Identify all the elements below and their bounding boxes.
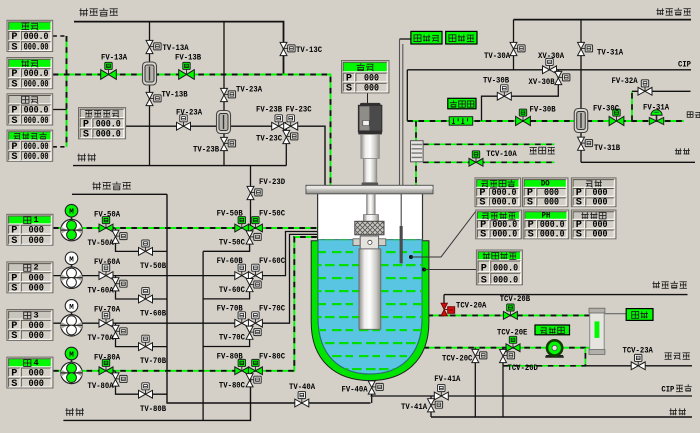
display oxygen — [7, 58, 53, 91]
svg-text:S: S — [11, 152, 17, 163]
svg-text:TV-50C: TV-50C — [219, 238, 245, 248]
valve FV-60C — [248, 264, 262, 279]
svg-text:TV-60B: TV-60B — [140, 309, 166, 319]
valve FV-40A — [368, 381, 383, 394]
svg-text:FV-60C: FV-60C — [259, 256, 285, 266]
valve TV-30B — [497, 85, 511, 100]
heat exchanger — [411, 141, 424, 162]
svg-text:000.0: 000.0 — [492, 198, 517, 209]
wire steam column TV-23 — [223, 22, 225, 166]
pump P2 — [61, 252, 83, 288]
valve TV-70A — [112, 325, 127, 338]
svg-text:000.00: 000.00 — [24, 116, 49, 127]
svg-text:TCV-20E: TCV-20E — [497, 328, 527, 338]
valve FV-23A — [177, 115, 191, 130]
svg-text:S: S — [11, 236, 17, 247]
svg-text:FV-41A: FV-41A — [434, 374, 461, 384]
valve FV-60B — [235, 264, 249, 279]
valve TV-13A — [146, 40, 161, 53]
wire TV-80A drain — [116, 371, 168, 394]
valve TV-23A — [221, 88, 236, 101]
svg-text:S: S — [480, 230, 486, 241]
wire main gas line — [53, 75, 331, 186]
svg-text:2: 2 — [33, 263, 38, 273]
svg-text:000.00: 000.00 — [24, 42, 49, 53]
display pump3 — [7, 310, 53, 343]
pump P1 — [61, 204, 83, 240]
wire top header — [74, 22, 284, 75]
svg-text:PH: PH — [542, 211, 551, 221]
svg-text:XV-30A: XV-30A — [538, 51, 565, 61]
svg-text:FV-23C: FV-23C — [286, 105, 312, 115]
wire CIP return line — [371, 395, 693, 397]
svg-text:TV-50A: TV-50A — [88, 238, 115, 248]
valve FV-23B — [272, 115, 286, 130]
label soft water — [665, 353, 690, 360]
wire glass bottom line — [503, 348, 585, 366]
leader temperature — [409, 211, 476, 259]
svg-text:TV-23C: TV-23C — [256, 134, 282, 144]
valve TCV-10A — [469, 151, 483, 166]
wire pump4 line — [53, 237, 317, 371]
display PH — [523, 210, 569, 241]
circulation pump — [545, 340, 564, 358]
valve FV-80A — [99, 359, 113, 374]
label filtered steam 1 — [79, 8, 118, 16]
valve TV-23C — [283, 130, 298, 143]
wire harvest stem — [371, 379, 373, 403]
valve TV-80B — [139, 383, 153, 398]
valve XV-30A — [543, 58, 557, 73]
svg-text:FV-23D: FV-23D — [259, 177, 285, 187]
svg-text:TV-13A: TV-13A — [163, 43, 190, 53]
agitator coupling — [355, 221, 384, 235]
svg-text:TV-80C: TV-80C — [219, 380, 245, 390]
wire FV-32A bypass — [632, 90, 691, 92]
svg-text:TV-41A: TV-41A — [401, 402, 428, 412]
wire drain bottom-left — [63, 371, 250, 421]
svg-text:S: S — [527, 198, 533, 209]
wire steam column TV-13 — [149, 22, 151, 166]
display pump2 — [7, 262, 53, 295]
valve TV-13B — [146, 92, 161, 105]
svg-text:TCV-20C: TCV-20C — [442, 354, 472, 364]
agitator cylinder — [359, 249, 381, 329]
wire TV-70C drain — [203, 323, 250, 346]
svg-text:TV-30A: TV-30A — [484, 51, 511, 61]
svg-text:XV-30B: XV-30B — [529, 77, 555, 87]
wire nitrogen connector — [53, 109, 67, 111]
valve TV-50A — [112, 230, 127, 243]
svg-text:TV-23B: TV-23B — [193, 145, 219, 155]
valve TCV-23A — [631, 354, 645, 369]
svg-text:FV-70B: FV-70B — [217, 304, 243, 314]
svg-text:1: 1 — [33, 215, 38, 225]
svg-text:FV-80B: FV-80B — [217, 351, 243, 361]
svg-text:000: 000 — [592, 230, 607, 241]
svg-text:FV-13A: FV-13A — [101, 53, 128, 63]
agitator motor — [358, 93, 382, 186]
wire chilled supply — [423, 143, 554, 145]
svg-text:000.00: 000.00 — [24, 152, 49, 163]
svg-text:FV-30B: FV-30B — [530, 105, 556, 115]
wire TV-70A drain — [116, 323, 168, 346]
valve FV-50A — [99, 217, 113, 232]
svg-text:000.0: 000.0 — [493, 276, 518, 287]
wire FV-23D column — [250, 166, 252, 228]
svg-text:FV-80C: FV-80C — [259, 351, 285, 361]
svg-text:TV-23A: TV-23A — [236, 85, 263, 95]
svg-text:TV-31B: TV-31B — [594, 143, 620, 153]
wire jacket steam line — [428, 314, 590, 316]
label filtered steam 3 — [656, 8, 691, 15]
svg-text:S: S — [481, 276, 487, 287]
valve TV-50B — [139, 240, 153, 255]
svg-text:M: M — [69, 304, 74, 312]
svg-text:TV-31A: TV-31A — [597, 48, 624, 58]
valve FV-23D — [247, 186, 262, 199]
valve TV-40A — [295, 392, 309, 407]
svg-text:FV-30C: FV-30C — [593, 104, 619, 114]
wire TV-50C drain — [203, 228, 250, 251]
svg-text:S: S — [11, 80, 17, 91]
display volume — [571, 178, 616, 209]
svg-text:000.0: 000.0 — [492, 230, 517, 241]
filter F1 — [143, 62, 157, 85]
wire co2 connector — [53, 146, 67, 148]
valve TCV-20E — [506, 336, 520, 351]
sight glass — [589, 308, 605, 354]
svg-text:TCV-23A: TCV-23A — [623, 346, 654, 356]
svg-text:FV-60B: FV-60B — [217, 256, 243, 266]
svg-text:S: S — [11, 116, 17, 127]
valve FV-80B — [235, 359, 249, 374]
valve FV-80C — [248, 359, 262, 374]
svg-text:S: S — [479, 198, 485, 209]
svg-text:TV-70B: TV-70B — [140, 356, 166, 366]
svg-text:FV-70A: FV-70A — [94, 305, 121, 315]
wire TV-60A drain — [116, 276, 168, 299]
wire level probe link — [400, 38, 411, 40]
wire gas manifold — [66, 36, 68, 147]
svg-text:000: 000 — [592, 198, 607, 209]
svg-text:FV-50A: FV-50A — [94, 210, 121, 220]
svg-text:FV-23B: FV-23B — [256, 105, 282, 115]
svg-text:S: S — [346, 84, 352, 95]
valve FV-31A — [649, 110, 663, 125]
valve TV-31A — [578, 42, 593, 55]
valve TV-70C — [246, 326, 261, 339]
svg-text:S: S — [11, 379, 17, 390]
pump P3 — [61, 300, 83, 336]
svg-text:M: M — [69, 209, 74, 217]
pump P4 — [61, 347, 83, 383]
valve FV-30C — [609, 109, 624, 126]
valve TV-60B — [139, 288, 153, 303]
valve FV-30B — [516, 109, 531, 126]
valve TCV-20B — [503, 304, 517, 319]
svg-text:FV-23A: FV-23A — [176, 108, 203, 118]
wire TV-30A column — [513, 20, 515, 70]
svg-text:TV-70C: TV-70C — [219, 333, 245, 343]
wire CIP line — [407, 69, 691, 71]
svg-text:FV-13B: FV-13B — [175, 53, 201, 63]
vessel jacket — [311, 241, 429, 381]
valve TV-13C — [280, 42, 295, 55]
svg-text:TV-13C: TV-13C — [296, 45, 322, 55]
wire steam line 2 — [72, 193, 167, 195]
wire TV-60C drain — [203, 276, 250, 299]
svg-text:M: M — [69, 256, 74, 264]
svg-text:FV-60A: FV-60A — [94, 257, 121, 267]
svg-text:4: 4 — [33, 358, 38, 368]
display DO — [523, 178, 569, 209]
wire air connector — [53, 35, 67, 37]
wire drain right top — [581, 161, 695, 163]
svg-text:S: S — [576, 198, 582, 209]
display agitator — [342, 61, 390, 95]
wire TV-23C drop — [285, 126, 287, 165]
valve FV-41A — [434, 385, 448, 400]
vessel lid — [306, 185, 433, 194]
svg-text:S: S — [576, 230, 582, 241]
display pump1 — [7, 214, 53, 247]
valve TV-31B — [578, 137, 593, 150]
wire chilled riser — [415, 121, 417, 185]
svg-text:TV-80A: TV-80A — [88, 381, 115, 391]
valve TV-60A — [112, 278, 127, 291]
valve FV-32A — [638, 80, 652, 95]
label drain 4 — [669, 408, 686, 415]
display co2 — [7, 130, 53, 163]
display vessel temperature — [476, 210, 522, 241]
svg-text:000.00: 000.00 — [24, 80, 49, 91]
svg-text:000: 000 — [28, 284, 44, 295]
valve TCV-20C — [472, 349, 487, 362]
wire softwater line — [585, 365, 692, 367]
svg-text:S: S — [528, 230, 534, 241]
svg-text:TV-50B: TV-50B — [140, 261, 166, 271]
svg-text:000: 000 — [28, 379, 44, 390]
label drain 1 — [77, 154, 96, 162]
display pump4 — [7, 357, 53, 390]
svg-text:000: 000 — [544, 198, 559, 209]
display level-low — [411, 31, 442, 44]
display glucose — [571, 210, 616, 241]
wire probe line b — [402, 44, 404, 185]
wire level gauge link — [605, 313, 626, 315]
wire TV-41A drop — [430, 396, 432, 417]
svg-text:S: S — [83, 130, 89, 141]
agitator shaft — [364, 194, 379, 222]
vessel headspace — [318, 194, 423, 241]
svg-text:FV-80A: FV-80A — [94, 352, 121, 362]
wire drain top-left — [73, 165, 286, 167]
svg-text:TV-30B: TV-30B — [483, 76, 509, 86]
label drain 2 — [65, 408, 84, 416]
svg-text:000: 000 — [364, 84, 379, 95]
valve FV-60A — [99, 264, 113, 279]
display circulation pump tag — [535, 325, 570, 335]
svg-text:TV-40A: TV-40A — [289, 382, 316, 392]
display surface air — [79, 108, 126, 141]
valve FV-50C — [248, 217, 262, 232]
display heater tag — [448, 98, 476, 109]
label filtered steam 4 — [652, 281, 687, 288]
wire TV-50A drain — [116, 228, 168, 251]
wire XV-30B branch — [482, 70, 559, 121]
wire pump2 line — [53, 232, 317, 276]
display level — [626, 309, 653, 321]
svg-text:FV-40A: FV-40A — [342, 385, 369, 395]
valve FV-70A — [99, 312, 113, 327]
wire surface-air line — [126, 126, 325, 185]
wire drain bottom-right — [431, 416, 692, 418]
valve TCV-20D — [500, 349, 515, 362]
svg-text:000.0: 000.0 — [540, 230, 565, 241]
wire vessel top to CIP — [406, 70, 408, 121]
display level-high — [446, 31, 477, 44]
svg-text:CIP: CIP — [678, 60, 691, 70]
display nitrogen — [7, 94, 53, 127]
wire probe line a — [399, 39, 401, 185]
svg-text:S: S — [11, 331, 17, 342]
svg-text:TV-80B: TV-80B — [140, 404, 166, 414]
agitator collar — [353, 236, 386, 249]
valve FV-70B — [235, 312, 249, 327]
svg-text:000: 000 — [28, 331, 44, 342]
wire chilled return — [423, 161, 554, 163]
svg-text:TV-60A: TV-60A — [88, 286, 115, 296]
svg-text:TCV-20B: TCV-20B — [500, 294, 530, 304]
wire steam line 3 — [444, 294, 688, 296]
svg-text:FV-31A: FV-31A — [643, 103, 670, 113]
filter F2 — [217, 111, 231, 134]
svg-text:S: S — [11, 42, 17, 53]
svg-text:FV-50B: FV-50B — [217, 209, 243, 219]
valve XV-30B — [555, 71, 570, 84]
wire exhaust main — [407, 120, 683, 122]
wire drain collect x203 — [202, 251, 204, 420]
valve TV-70B — [139, 335, 153, 350]
display vessel pressure — [475, 178, 521, 209]
svg-text:3: 3 — [33, 310, 38, 320]
svg-text:TV-70A: TV-70A — [88, 333, 115, 343]
wire TCV-20C column — [474, 348, 476, 417]
leader jacket temperature — [422, 268, 476, 272]
svg-text:CIP: CIP — [661, 385, 674, 395]
display jacket temperature — [476, 250, 522, 287]
wire top right header — [514, 19, 692, 21]
wire TCV-20D column — [502, 348, 504, 417]
svg-text:M: M — [69, 352, 74, 360]
svg-text:000.0: 000.0 — [96, 130, 121, 141]
valve TV-60C — [246, 279, 261, 292]
svg-text:FV-32A: FV-32A — [612, 76, 639, 86]
wire pump1 line — [53, 227, 317, 229]
svg-text:TCV-20D: TCV-20D — [508, 363, 538, 373]
svg-text:TV-60C: TV-60C — [219, 285, 245, 295]
level probe — [400, 194, 403, 263]
label filtered steam 2 — [92, 182, 130, 190]
valve FV-13A — [101, 62, 117, 79]
svg-text:FV-50C: FV-50C — [259, 209, 285, 219]
valve TV-80A — [112, 373, 127, 386]
valve TV-23B — [221, 137, 236, 150]
wire FV-32A bypass up — [631, 91, 633, 121]
valve TV-30A — [510, 42, 525, 55]
wire pump3 line — [53, 234, 317, 323]
valve FV-70C — [248, 312, 262, 327]
relief valve TCV-20A — [441, 303, 455, 316]
label chilled water — [530, 147, 555, 154]
valve FV-23C — [284, 115, 298, 130]
valve FV-13B — [179, 62, 195, 79]
label CIP return — [661, 384, 691, 394]
wire TCV-20A stem — [443, 295, 445, 307]
svg-text:TCV-20A: TCV-20A — [456, 301, 487, 311]
filter F3 — [574, 109, 588, 133]
valve TV-50C — [246, 231, 261, 244]
svg-text:TCV-10A: TCV-10A — [486, 149, 517, 159]
valve TV-80C — [246, 374, 261, 387]
wire steam riser x167 to harvest — [167, 194, 371, 403]
wire TV-80C drain — [249, 371, 251, 372]
label drain 3 — [675, 148, 690, 154]
svg-text:FV-70C: FV-70C — [259, 304, 285, 314]
display air — [7, 20, 53, 53]
svg-text:DO: DO — [541, 179, 550, 189]
vessel liquid — [318, 240, 422, 374]
heater element — [449, 117, 473, 126]
svg-text:000: 000 — [28, 236, 44, 247]
svg-text:S: S — [11, 284, 17, 295]
valve TV-41A — [428, 399, 443, 412]
wire TV-31A column — [580, 20, 582, 163]
wire jacket circulation — [424, 347, 590, 349]
label exhaust — [687, 112, 700, 118]
svg-text:TV-13B: TV-13B — [162, 90, 188, 100]
valve FV-50B — [235, 217, 249, 232]
